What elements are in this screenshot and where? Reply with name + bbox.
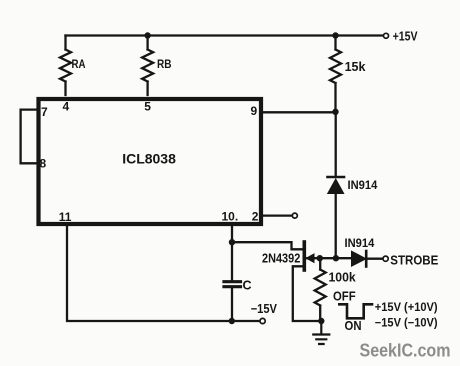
junction at 15k top bbox=[332, 32, 338, 38]
junction at RB top bbox=[144, 32, 150, 38]
terminal -15V bbox=[260, 318, 265, 323]
transistor Q1 2N4392 channel bar bbox=[302, 242, 306, 270]
svg-text:15k: 15k bbox=[345, 60, 366, 74]
svg-text:ON: ON bbox=[345, 319, 362, 333]
svg-text:4: 4 bbox=[63, 99, 70, 113]
svg-text:ICL8038: ICL8038 bbox=[122, 150, 176, 166]
switch waveform OFF/ON pulse bbox=[339, 304, 372, 318]
svg-text:OFF: OFF bbox=[333, 289, 356, 303]
svg-text:IN914: IN914 bbox=[345, 236, 375, 250]
svg-text:10.: 10. bbox=[222, 209, 239, 223]
wire pin 9 to node bbox=[261, 111, 336, 113]
op-amp/IC U1 ICL8038 box bbox=[39, 99, 262, 224]
ground bbox=[313, 321, 329, 344]
terminal pin 2 (open circle) bbox=[292, 213, 297, 218]
svg-text:7: 7 bbox=[41, 105, 48, 119]
svg-text:RA: RA bbox=[72, 57, 86, 71]
wire pin10 node to drain (stepped) bbox=[232, 242, 303, 249]
svg-text:2: 2 bbox=[252, 209, 259, 223]
svg-text:+15V (+10V): +15V (+10V) bbox=[375, 302, 438, 314]
diode D2 IN914 (horizontal, to STROBE) bbox=[352, 251, 367, 266]
junction on gate line (D1 bottom) bbox=[333, 255, 339, 261]
svg-text:IN914: IN914 bbox=[348, 178, 378, 192]
diode D1 IN914 (vertical, cathode bar on top) bbox=[328, 176, 345, 179]
terminal +15V bbox=[384, 33, 389, 38]
svg-text:11: 11 bbox=[59, 210, 72, 224]
svg-text:RB: RB bbox=[157, 57, 172, 71]
junction at ground node bbox=[318, 318, 324, 324]
svg-text:100k: 100k bbox=[329, 271, 356, 285]
svg-text:2N4392: 2N4392 bbox=[262, 251, 300, 265]
resistor RB bbox=[142, 36, 153, 96]
svg-text:+15V: +15V bbox=[393, 30, 419, 44]
svg-text:STROBE: STROBE bbox=[390, 252, 438, 267]
capacitor C plates bbox=[224, 282, 241, 287]
svg-text:8: 8 bbox=[40, 157, 47, 171]
svg-text:5: 5 bbox=[144, 99, 151, 113]
svg-text:C: C bbox=[243, 279, 252, 293]
wire pin 2 to terminal bbox=[261, 214, 292, 216]
junction at pin10/cap node bbox=[229, 239, 235, 245]
wire node to diode D1 bbox=[335, 112, 337, 176]
svg-text:9: 9 bbox=[251, 104, 258, 118]
wire pin7-pin8 loop bbox=[21, 110, 37, 164]
wire pin 11 down and along bottom to -15V bbox=[67, 226, 259, 321]
resistor 100k bbox=[315, 258, 326, 321]
junction on gate line (100k top) bbox=[317, 255, 323, 261]
terminal STROBE bbox=[383, 256, 388, 261]
wire top +15V rail bbox=[66, 34, 383, 36]
junction at cap bottom rail bbox=[229, 318, 235, 324]
wire D1 to gate line bbox=[335, 194, 337, 259]
transistor Q1 gate lead with arrow bbox=[306, 257, 351, 259]
resistor RA bbox=[60, 36, 71, 96]
transistor Q1 source lead (stepped down to ground rail) bbox=[293, 266, 322, 321]
svg-text:−15V: −15V bbox=[251, 302, 278, 316]
wire cap bottom down bbox=[231, 288, 233, 321]
junction at pin9 node bbox=[332, 109, 338, 115]
resistor 15k bbox=[330, 36, 341, 113]
wire pin 10 down bbox=[231, 226, 233, 280]
svg-text:−15V (−10V): −15V (−10V) bbox=[375, 318, 438, 330]
svg-text:SeekIC.com: SeekIC.com bbox=[360, 341, 451, 361]
